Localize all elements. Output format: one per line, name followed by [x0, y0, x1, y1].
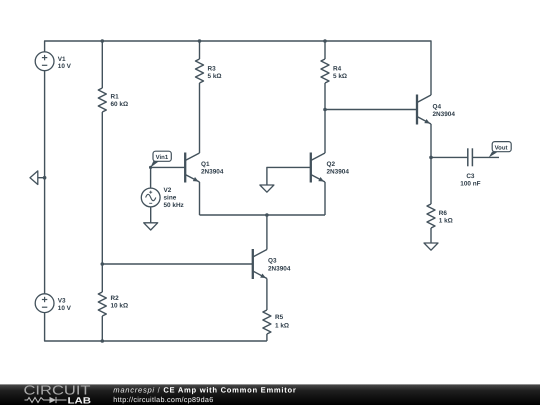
voltage source V1 [35, 52, 54, 71]
svg-text:10 V: 10 V [58, 305, 72, 312]
label Q1 2N3904 [201, 161, 224, 176]
label R2 10 k [111, 295, 129, 310]
node junction top rail R4 [323, 39, 327, 43]
svg-text:mancrespi / CE Amp with Common: mancrespi / CE Amp with Common Emmitor [113, 386, 296, 395]
ground R6 [424, 243, 438, 250]
svg-text:R5: R5 [275, 314, 284, 321]
wire R5 bottom [266, 334, 268, 341]
svg-text:V3: V3 [58, 297, 66, 304]
wire Q4 node to R6 [430, 157, 432, 204]
svg-text:Vout: Vout [495, 145, 508, 152]
svg-text:2N3904: 2N3904 [433, 111, 456, 118]
svg-text:5 kΩ: 5 kΩ [333, 73, 347, 80]
svg-text:Vin1: Vin1 [156, 154, 169, 161]
svg-text:R2: R2 [111, 295, 120, 302]
resistor R2 [98, 292, 106, 316]
node junction bottom rail R2 [101, 339, 105, 343]
label V3 10 V [58, 297, 72, 312]
svg-text:Q2: Q2 [327, 161, 336, 168]
wire R1 bottom to R2 [101, 112, 103, 292]
svg-text:Q1: Q1 [201, 161, 210, 168]
resistor R3 [196, 59, 204, 83]
wire to C3 [431, 156, 468, 158]
wire R1 branch top [101, 41, 103, 88]
wire R4 bottom to Q2 collector [324, 83, 326, 153]
label R3 5 k [208, 65, 222, 80]
node junction left ground [43, 176, 47, 180]
wire R6 to ground [430, 228, 432, 243]
wire left rail V1 to V3 [44, 71, 46, 294]
transistor Q2 2N3904 [311, 153, 325, 183]
ground V2 [144, 223, 158, 230]
logo resistor diode line [25, 397, 67, 403]
ground Q2 base [260, 185, 274, 192]
resistor R4 [321, 59, 329, 83]
label Q4 2N3904 [433, 104, 456, 119]
svg-text:Q4: Q4 [433, 104, 442, 111]
label Q2 2N3904 [327, 161, 350, 176]
wire V3 bottom to bottom rail [45, 313, 267, 341]
svg-text:LAB: LAB [68, 395, 92, 405]
capacitor C3 [468, 148, 473, 166]
svg-text:R1: R1 [111, 93, 120, 100]
svg-text:10 kΩ: 10 kΩ [111, 303, 129, 310]
wire Q2 emitter down [324, 182, 326, 215]
wire Q3 emitter to R5 [266, 279, 268, 311]
node junction R4 bottom [323, 108, 327, 112]
svg-text:50 kHz: 50 kHz [164, 202, 184, 209]
wire bus to Q3 collector [266, 215, 268, 250]
resistor R5 [263, 310, 271, 334]
wire top rail [45, 41, 431, 95]
svg-text:V2: V2 [164, 187, 172, 194]
node junction Vin1 [149, 166, 152, 169]
resistor R6 [427, 204, 435, 228]
svg-text:10 V: 10 V [58, 63, 72, 70]
node junction Q4 emitter [429, 156, 433, 160]
label R6 1 k [439, 210, 453, 225]
wire Vin1 to V2 [150, 167, 152, 188]
svg-text:5 kΩ: 5 kΩ [208, 73, 222, 80]
svg-text:2N3904: 2N3904 [268, 266, 291, 273]
wire Q4 emitter down [430, 124, 432, 157]
node junction top rail R3 [198, 39, 202, 43]
svg-text:100 nF: 100 nF [460, 181, 480, 188]
wire Q3 base [102, 263, 253, 265]
transistor Q1 2N3904 [185, 153, 199, 183]
svg-text:C3: C3 [466, 173, 475, 180]
svg-text:2N3904: 2N3904 [201, 169, 224, 176]
wire Vin1 to Q1 base [151, 166, 186, 168]
ground left [30, 171, 45, 185]
flag Vin1 [150, 151, 171, 167]
wire R3 top [199, 41, 201, 59]
resistor R1 [98, 88, 106, 112]
svg-text:60 kΩ: 60 kΩ [111, 101, 129, 108]
svg-text:http://circuitlab.com/cp89da6: http://circuitlab.com/cp89da6 [113, 395, 213, 404]
voltage source V2 sine [141, 188, 160, 207]
svg-text:V1: V1 [58, 56, 66, 63]
svg-text:2N3904: 2N3904 [327, 169, 350, 176]
wire R4 node to Q4 base [325, 109, 417, 111]
label R5 1 k [275, 314, 289, 329]
wire R3 bottom to Q1 collector [199, 83, 201, 153]
label V2 sine 50 kHz [164, 187, 184, 209]
label Q3 2N3904 [268, 258, 291, 273]
transistor Q4 2N3904 [417, 95, 431, 125]
wire R4 top [324, 41, 326, 59]
wire Q2 base to ground [267, 167, 311, 185]
node junction top rail R1 [101, 39, 105, 43]
node junction R2 top / Q3 base [101, 262, 105, 266]
svg-text:Q3: Q3 [268, 258, 277, 265]
svg-text:R4: R4 [333, 65, 342, 72]
transistor Q3 2N3904 [253, 249, 267, 279]
footer bar [0, 384, 540, 405]
svg-text:1 kΩ: 1 kΩ [275, 322, 289, 329]
label V1 10 V [58, 56, 72, 70]
node junction emitter bus [265, 213, 269, 217]
wire R2 bottom [101, 316, 103, 341]
label R4 5 k [333, 65, 347, 80]
wire Q1 emitter down [199, 182, 201, 215]
flag Vout [489, 142, 512, 158]
wire C3 to Vout [472, 156, 499, 158]
svg-text:1 kΩ: 1 kΩ [439, 218, 453, 225]
wire emitter bus [200, 214, 326, 216]
svg-text:sine: sine [164, 195, 177, 202]
label R1 60 k [111, 93, 129, 108]
svg-text:R3: R3 [208, 65, 217, 72]
label C3 100 nF [460, 173, 480, 188]
svg-text:R6: R6 [439, 210, 448, 217]
voltage source V3 [35, 294, 54, 313]
wire V2 to ground [150, 207, 152, 223]
